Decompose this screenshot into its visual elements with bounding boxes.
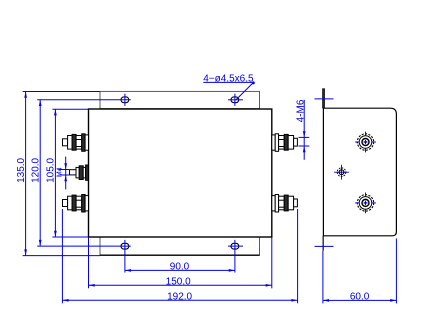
- slot bottom-right centerlines: [228, 240, 243, 273]
- svg-text:105.0: 105.0: [45, 157, 56, 182]
- dimension 4-M6: [299, 100, 310, 160]
- terminal left middle M4 (earth stud): [70, 165, 89, 180]
- svg-text:120.0: 120.0: [31, 157, 42, 182]
- dimension M4: [58, 157, 69, 190]
- side view slot centre ticks: [315, 99, 334, 247]
- svg-text:150.0: 150.0: [166, 276, 191, 287]
- mounting slot bottom-right: [231, 243, 239, 249]
- terminal right top (load terminal): [272, 134, 298, 152]
- svg-text:4−ø4.5x6.5: 4−ø4.5x6.5: [203, 73, 254, 84]
- bottom flange lower edge: [100, 254, 260, 256]
- dimension 90.0: [125, 269, 235, 271]
- terminal left top (line terminal): [63, 134, 89, 152]
- slot top-left centerline: [124, 94, 126, 106]
- side view earth stud crosshair: [334, 165, 349, 180]
- svg-text:192.0: 192.0: [167, 291, 192, 302]
- dimension 60.0: [323, 239, 397, 304]
- svg-text:4-M6: 4-M6: [295, 99, 306, 122]
- dimension 150.0: [89, 237, 272, 288]
- side view terminal circle top: [357, 134, 373, 150]
- svg-text:M4: M4: [57, 167, 64, 177]
- dimension 105.0: [52, 109, 88, 237]
- side view body: [323, 108, 396, 236]
- svg-text:90.0: 90.0: [170, 261, 190, 272]
- svg-text:60.0: 60.0: [350, 291, 370, 302]
- bottom mounting flange: [100, 237, 260, 255]
- mounting slot top-right: [231, 97, 239, 103]
- slot bottom-left centerline: [124, 240, 126, 273]
- svg-text:135.0: 135.0: [16, 157, 27, 182]
- mounting slot bottom-left: [121, 243, 129, 249]
- leader 4-dia4.5x6.5: [203, 82, 253, 99]
- dimension 120.0: [37, 100, 131, 246]
- slot top-right centerlines: [228, 94, 243, 106]
- filter body: [89, 109, 272, 237]
- terminal left bottom (line terminal): [63, 195, 89, 213]
- side view mounting plate lower edge: [322, 236, 324, 251]
- terminal right bottom (load terminal): [272, 195, 298, 213]
- dimension 135.0: [23, 92, 101, 256]
- side view terminal circle bottom: [357, 195, 373, 211]
- top mounting flange: [100, 91, 260, 108]
- dimension 192.0: [62, 209, 297, 303]
- mounting slot top-left: [121, 97, 129, 103]
- side view mounting plate upper edge: [322, 88, 325, 108]
